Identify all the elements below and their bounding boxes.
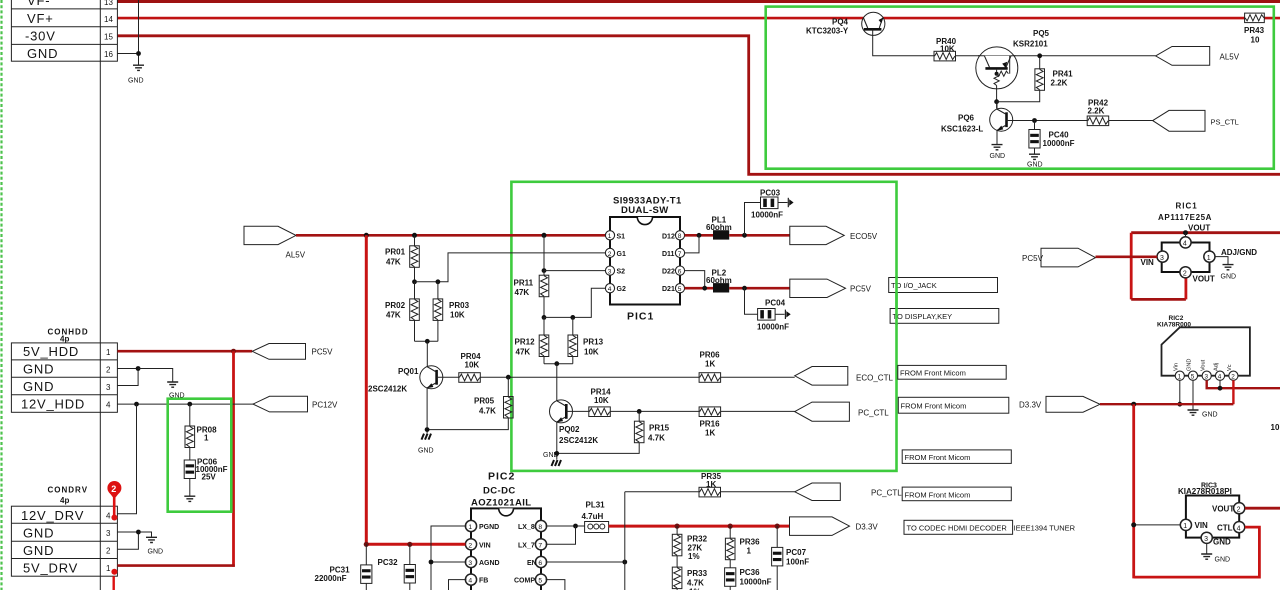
svg-text:VF+: VF+ <box>27 11 54 26</box>
svg-text:2: 2 <box>1231 374 1235 381</box>
svg-text:GND: GND <box>23 361 54 376</box>
svg-text:PR16: PR16 <box>700 420 721 429</box>
ground GND (pin16) <box>133 65 144 70</box>
pin 3 Vout <box>1202 371 1211 380</box>
svg-text:3: 3 <box>1160 255 1164 262</box>
svg-text:PR32: PR32 <box>687 535 708 544</box>
ground GND (CONDRV) <box>146 537 157 542</box>
svg-text:TO CODEC HDMI DECODER: TO CODEC HDMI DECODER <box>907 524 1008 533</box>
svg-text:60ohm: 60ohm <box>706 276 732 285</box>
svg-text:PC5V: PC5V <box>312 348 334 357</box>
svg-text:TO DISPLAY,KEY: TO DISPLAY,KEY <box>893 312 953 321</box>
wire: red stub below CONDRV <box>112 576 114 590</box>
tag AL5V (middle left) <box>244 226 296 244</box>
svg-text:2: 2 <box>468 542 472 549</box>
svg-text:2SC2412K: 2SC2412K <box>368 385 407 394</box>
wire: PQ6 emitter to ground <box>996 130 998 144</box>
svg-text:3: 3 <box>106 383 111 392</box>
pin 5 D21 <box>675 284 684 293</box>
wire: pin5 to PL2 (dark red) <box>685 287 713 290</box>
svg-text:D3.3V: D3.3V <box>1019 401 1042 410</box>
svg-text:GND: GND <box>148 549 164 556</box>
svg-text:PC5V: PC5V <box>1022 254 1044 263</box>
svg-text:8: 8 <box>678 233 682 240</box>
svg-text:7: 7 <box>538 542 542 549</box>
RIC1 body <box>1162 243 1210 273</box>
svg-text:PQ01: PQ01 <box>398 367 419 376</box>
svg-text:15: 15 <box>104 33 113 42</box>
svg-text:3: 3 <box>1204 536 1208 543</box>
node junction S1/down-feed <box>364 233 369 238</box>
svg-text:3: 3 <box>106 529 111 538</box>
svg-text:GND: GND <box>1215 557 1231 564</box>
svg-text:1: 1 <box>1207 255 1211 262</box>
svg-text:TO I/O_JACK: TO I/O_JACK <box>891 281 937 290</box>
wire: RIC3 VOUT out (dark red) <box>1245 507 1280 510</box>
svg-text:G1: G1 <box>617 251 626 258</box>
wire: CONDRV GND pins 3,2 <box>117 532 138 549</box>
svg-text:D22: D22 <box>662 269 675 276</box>
svg-text:1K: 1K <box>705 360 715 369</box>
pin 1 PGND <box>465 520 476 531</box>
svg-text:4.7K: 4.7K <box>687 579 704 588</box>
pin 7 LX_7 <box>535 539 546 550</box>
resistor PR13 10K <box>572 317 574 335</box>
svg-text:4.7uH: 4.7uH <box>582 512 604 521</box>
wire: PQ02 base to PR14 <box>566 410 589 412</box>
tag PC5V (right) <box>1041 248 1096 267</box>
node junction PC03 <box>742 233 747 238</box>
wire: AL5V to PIC1 pin S1 (dark red) <box>296 234 606 237</box>
svg-text:PIC2: PIC2 <box>488 471 515 483</box>
wire: PR01 bottom junction to G1 <box>414 267 416 282</box>
svg-text:1: 1 <box>468 524 472 531</box>
capacitor PC40 10000nF <box>1034 121 1036 130</box>
wire: vertical from top to GND junction <box>138 0 140 65</box>
wire: D3.3V riser down (bright red) <box>1132 404 1135 578</box>
svg-text:IEEE1394 TUNER: IEEE1394 TUNER <box>1014 524 1076 533</box>
svg-text:PC5V: PC5V <box>850 285 872 294</box>
svg-text:ECO_CTL: ECO_CTL <box>856 374 893 383</box>
svg-text:PC07: PC07 <box>786 548 807 557</box>
wire: PR06 to ECO_CTL tag <box>721 376 795 378</box>
svg-text:12V_DRV: 12V_DRV <box>21 508 84 523</box>
box TO DISPLAY,KEY <box>890 309 999 324</box>
pin 4 top <box>1180 237 1191 248</box>
node junction PC40/base <box>1032 118 1037 123</box>
resistor PR16 1K <box>699 407 721 417</box>
svg-text:PC32: PC32 <box>378 558 399 567</box>
wire: ECO_CTL line <box>480 376 699 378</box>
svg-text:Vin: Vin <box>1174 363 1180 371</box>
svg-text:DUAL-SW: DUAL-SW <box>621 205 669 216</box>
svg-text:6: 6 <box>538 560 542 567</box>
svg-text:2.2K: 2.2K <box>1088 107 1105 116</box>
resistor PR14 10K <box>589 407 611 417</box>
wire: PR15 bottom to PQ02 emitter <box>557 443 639 454</box>
wire: COMP down <box>546 580 565 590</box>
svg-text:GND: GND <box>1027 162 1043 169</box>
connector table top (pins 13-16) <box>11 0 117 61</box>
box FROM Front Micom 3 <box>902 450 1011 464</box>
svg-text:1: 1 <box>1178 374 1182 381</box>
ground (PQ01 hatched) <box>422 434 432 440</box>
wire: 5V vertical riser (bright red) <box>232 351 235 567</box>
svg-text:10K: 10K <box>465 361 480 370</box>
wire: junction right and up to PR41 <box>997 90 1040 101</box>
wire: PC06 to ground <box>189 479 191 496</box>
tag ECO_CTL <box>795 367 848 386</box>
wire: FB down <box>449 580 467 590</box>
wire: D3.3V rail (dark red) <box>1100 403 1233 405</box>
wire: Vout net (dark red) <box>1207 380 1280 388</box>
pin 2 VIN <box>465 539 476 550</box>
resistor PR33 4.7K <box>676 556 678 567</box>
transistor PQ4 <box>806 12 885 35</box>
node junction VOUT <box>1183 230 1188 235</box>
node junction pin16 <box>136 51 141 56</box>
pin 4 Adj <box>1215 371 1224 380</box>
tag ECO5V <box>790 226 844 244</box>
svg-text:1: 1 <box>1183 523 1187 530</box>
svg-text:PGND: PGND <box>479 524 499 531</box>
svg-text:5: 5 <box>678 286 682 293</box>
svg-text:KTC3203-Y: KTC3203-Y <box>806 27 849 36</box>
resistor PR03 10K <box>437 282 439 299</box>
svg-text:PR11: PR11 <box>514 279 534 288</box>
svg-text:AP1117E25A: AP1117E25A <box>1158 213 1212 222</box>
tag PS_CTL <box>1153 110 1205 131</box>
svg-text:GND: GND <box>1202 412 1218 419</box>
wire: PR35 to PC_CTL tag <box>721 491 795 493</box>
svg-text:14: 14 <box>104 15 113 24</box>
svg-text:RIC1: RIC1 <box>1176 202 1198 211</box>
svg-text:FB: FB <box>479 578 488 585</box>
svg-text:GND: GND <box>1187 359 1193 371</box>
svg-text:PR33: PR33 <box>687 569 708 578</box>
wire: PL2 to PC5V tag (dark red) <box>729 287 790 290</box>
resistor PR42 2.2K <box>1087 116 1109 126</box>
RIC3 body <box>1186 496 1239 538</box>
svg-text:PS_CTL: PS_CTL <box>1211 118 1239 127</box>
svg-text:VF-: VF- <box>27 0 50 8</box>
svg-text:4: 4 <box>468 578 472 585</box>
pin 6 EN <box>535 556 546 567</box>
resistor PR35 1K <box>699 487 721 497</box>
wire: VF+ net row14 horizontal (red) <box>118 17 1280 20</box>
wire: PGND/AGND tie <box>431 526 466 590</box>
wire: PC40 to ground <box>1034 148 1036 154</box>
svg-text:22000nF: 22000nF <box>315 574 347 583</box>
svg-text:10000nF: 10000nF <box>757 323 789 332</box>
pin 3 VIN <box>1157 251 1168 262</box>
capacitor PC32 <box>409 544 411 564</box>
node junction PR01 top <box>412 233 417 238</box>
tag D3.3V (bottom) <box>790 517 850 536</box>
svg-text:D11: D11 <box>662 251 675 258</box>
svg-text:2.2K: 2.2K <box>1051 79 1068 88</box>
wire: 12V_HDD pin4 to PC12V tag <box>117 403 253 405</box>
svg-text:5V_DRV: 5V_DRV <box>23 561 78 576</box>
svg-text:10000nF: 10000nF <box>740 578 772 587</box>
capacitor PC06 10000nF 25V <box>189 448 191 461</box>
svg-text:GND: GND <box>418 448 434 455</box>
wire: Vc down (bright red) <box>1232 380 1234 404</box>
svg-text:LX_8: LX_8 <box>518 524 535 531</box>
pin 8 D12 <box>675 231 684 240</box>
svg-text:PR03: PR03 <box>449 301 470 310</box>
wire: PR05 bottom to PQ01 emitter/ground <box>427 418 508 430</box>
box FROM Front Micom 2 <box>898 397 1009 413</box>
resistor PR40 10K <box>934 51 956 61</box>
svg-text:4: 4 <box>106 400 111 409</box>
svg-text:10K: 10K <box>450 311 465 320</box>
resistor PR43 10 (top right corner) <box>1244 13 1265 44</box>
capacitor PC04 10000nF <box>745 288 758 314</box>
wire: LX_8 to PL31, LX_7 tie <box>546 525 585 527</box>
pin 3 GND <box>1201 532 1212 543</box>
wire: 5V_DRV pin1 (dark red) <box>117 564 234 567</box>
svg-text:4.7K: 4.7K <box>479 407 496 416</box>
capacitor PC31 22000nF <box>365 544 367 565</box>
resistor PR04 10K <box>459 373 481 383</box>
svg-text:VIN: VIN <box>1195 521 1209 530</box>
svg-text:1: 1 <box>747 547 752 556</box>
wire: vertical feed to DC-DC (bright red) <box>365 235 368 545</box>
svg-text:VOUT: VOUT <box>1188 224 1210 233</box>
resistor PR12 47K <box>543 317 545 335</box>
svg-text:VOUT: VOUT <box>1193 275 1215 284</box>
capacitor PC36 10000nF <box>729 560 731 568</box>
svg-text:5V_HDD: 5V_HDD <box>23 344 79 359</box>
svg-text:FROM Front Micom: FROM Front Micom <box>901 402 967 411</box>
svg-text:EN: EN <box>527 560 537 567</box>
pin 2 G1 <box>605 248 614 257</box>
wire: EN line and PR35 riser <box>546 561 625 563</box>
wire: PQ01 emitter down <box>426 388 428 433</box>
wire: PQ6 base right to PR42 <box>1007 120 1088 122</box>
svg-text:5: 5 <box>538 578 542 585</box>
wire: VOUT 2.5V rail (dark red) <box>1131 231 1280 234</box>
svg-text:3: 3 <box>608 269 612 276</box>
wire: VF- net top horizontal (dark red) <box>110 0 1280 3</box>
svg-text:VIN: VIN <box>1141 258 1155 267</box>
wire: PR40 to PQ5 and across to AL5V tag <box>956 55 1156 57</box>
svg-text:10000nF: 10000nF <box>751 211 783 220</box>
ground GND (PQ6) <box>992 145 1003 150</box>
svg-text:4: 4 <box>1237 525 1241 532</box>
svg-text:FROM Front Micom: FROM Front Micom <box>900 369 966 378</box>
svg-text:1: 1 <box>608 233 612 240</box>
pin 1 Vin <box>1175 371 1184 380</box>
svg-text:GND: GND <box>128 78 144 85</box>
green block box small (PR08/PC06) <box>168 399 232 512</box>
svg-text:4: 4 <box>106 512 111 521</box>
svg-text:60ohm: 60ohm <box>706 223 732 232</box>
resistor PR15 4.7K <box>638 411 640 421</box>
svg-text:ECO5V: ECO5V <box>850 232 878 241</box>
resistor PR06 1K <box>699 373 721 383</box>
svg-text:D3.3V: D3.3V <box>856 523 879 532</box>
svg-text:47K: 47K <box>515 288 530 297</box>
svg-text:4: 4 <box>1183 241 1187 248</box>
pin 8 LX_8 <box>535 520 546 531</box>
svg-text:47K: 47K <box>386 311 401 320</box>
tag PC12V <box>253 396 308 412</box>
svg-text:1: 1 <box>106 348 111 357</box>
svg-text:100nF: 100nF <box>786 558 809 567</box>
wire: PQ5 emitter down to junction <box>996 89 998 109</box>
svg-text:8: 8 <box>538 524 542 531</box>
svg-text:2: 2 <box>111 484 116 494</box>
svg-text:3: 3 <box>1205 374 1209 381</box>
svg-text:PQ02: PQ02 <box>559 425 580 434</box>
wire: PC_CTL line <box>610 410 699 412</box>
resistor PR01 47K <box>414 235 416 246</box>
svg-text:1K: 1K <box>705 429 715 438</box>
svg-text:PC12V: PC12V <box>312 401 338 410</box>
wire: PR12/PR13 bottoms to PQ02 collector <box>543 357 545 364</box>
node junction pin7 riser <box>697 233 702 238</box>
svg-text:47K: 47K <box>516 348 531 357</box>
IC PIC2 DC-DC AOZ1021AIL <box>471 471 541 590</box>
wire: PR41 top to AL5V net <box>1039 56 1041 69</box>
wire: CONHDD GND pins 2,3 <box>117 369 138 386</box>
wire: pin7 jog up <box>685 235 699 253</box>
svg-text:PC03: PC03 <box>760 189 781 198</box>
svg-text:PL31: PL31 <box>586 501 606 510</box>
node junction 5V riser <box>231 349 236 354</box>
ground GND (RIC1) <box>1223 265 1234 270</box>
RIC2 body <box>1162 327 1250 375</box>
svg-text:PR36: PR36 <box>740 538 761 547</box>
svg-text:2SC2412K: 2SC2412K <box>559 436 598 445</box>
svg-text:GND: GND <box>1221 274 1237 281</box>
svg-text:FROM Front Micom: FROM Front Micom <box>905 490 971 499</box>
ground (PQ02 hatched) <box>552 460 562 466</box>
inductor PL31 4.7uH <box>582 501 609 533</box>
svg-text:ADJ/GND: ADJ/GND <box>1221 248 1257 257</box>
resistor PR41 2.2K <box>1035 69 1045 91</box>
IC PIC1 SI9933ADY-T1 body <box>610 196 682 323</box>
node junction below PQ5 <box>994 99 999 104</box>
pin 1 VIN <box>1180 519 1191 530</box>
svg-text:2: 2 <box>608 251 612 258</box>
tag PC5V (middle output) <box>790 279 846 297</box>
wire: RIC3 GND stem <box>1206 544 1208 554</box>
svg-text:4p: 4p <box>60 335 69 344</box>
svg-text:CTL: CTL <box>1217 524 1233 533</box>
svg-text:CONDRV: CONDRV <box>48 486 89 495</box>
svg-text:2: 2 <box>106 547 111 556</box>
svg-text:PR02: PR02 <box>385 301 406 310</box>
tag PC_CTL <box>795 402 850 421</box>
wire: PQ02 emitter down <box>556 422 558 460</box>
box TO I/O_JACK <box>889 278 998 293</box>
svg-text:KSR2101: KSR2101 <box>1013 40 1048 49</box>
connector CONHDD 4p <box>11 328 117 413</box>
wire: ADJ to ground <box>1215 257 1228 265</box>
wire: PQ01 base to PR04 <box>437 376 459 378</box>
svg-text:PQ6: PQ6 <box>958 114 975 123</box>
ground GND (PC06) <box>184 496 195 501</box>
wire: PC5V to VIN (dark red) <box>1096 255 1158 258</box>
page border (green dashed left edge) <box>0 0 2 590</box>
ground GND (RIC2) <box>1188 410 1199 415</box>
svg-text:PC_CTL: PC_CTL <box>858 409 889 418</box>
svg-text:2: 2 <box>106 365 111 374</box>
svg-text:1: 1 <box>106 564 111 573</box>
transistor PQ5 KSR2101 <box>976 29 1050 89</box>
wire: Adj stem <box>1219 380 1221 388</box>
wire: pin16 to ground <box>117 53 138 55</box>
svg-text:PC36: PC36 <box>740 568 761 577</box>
svg-text:4p: 4p <box>60 496 69 505</box>
pin 4 G2 <box>605 284 614 293</box>
node junction PR11 top <box>542 233 547 238</box>
svg-text:PIC1: PIC1 <box>627 311 654 323</box>
node junction PR41/AL5V <box>1037 53 1042 58</box>
svg-text:PR12: PR12 <box>515 338 536 347</box>
green block box middle <box>511 182 896 471</box>
svg-text:FROM Front Micom: FROM Front Micom <box>905 453 971 462</box>
pin 5 COMP <box>535 574 546 585</box>
svg-text:PQ4: PQ4 <box>832 18 849 27</box>
green edge overlay over boxes <box>895 276 898 325</box>
svg-text:1K: 1K <box>706 480 716 489</box>
svg-text:GND: GND <box>990 153 1006 160</box>
pin 4 CTL <box>1234 522 1245 533</box>
ground GND (CONHDD) <box>167 382 178 387</box>
svg-text:S2: S2 <box>617 269 626 276</box>
wire: RIC3 VIN to riser <box>1134 524 1181 526</box>
ground GND (RIC3) <box>1201 554 1212 559</box>
svg-text:PR05: PR05 <box>474 397 495 406</box>
box TO CODEC HDMI DECODER <box>904 520 1013 534</box>
svg-text:KSC1623-L: KSC1623-L <box>941 125 983 134</box>
wire: GND stem <box>1192 380 1194 409</box>
svg-text:47K: 47K <box>386 258 401 267</box>
wire: VIN red feed <box>366 543 465 546</box>
svg-text:GND: GND <box>1213 538 1231 547</box>
svg-text:10: 10 <box>1271 423 1280 432</box>
pin 3 AGND <box>465 556 476 567</box>
svg-text:25V: 25V <box>202 473 217 482</box>
svg-text:10: 10 <box>1251 36 1260 45</box>
svg-text:Vc: Vc <box>1227 364 1233 371</box>
pin 5 GND <box>1188 371 1197 380</box>
resistor PR32 27K 1% <box>676 526 678 534</box>
svg-text:AGND: AGND <box>479 560 500 567</box>
tag D3.3V (right) <box>1046 396 1100 412</box>
svg-text:4: 4 <box>608 286 612 293</box>
svg-text:-30V: -30V <box>25 29 56 44</box>
svg-text:AL5V: AL5V <box>286 251 306 260</box>
svg-text:1%: 1% <box>688 552 700 561</box>
wire: PQ6 collector up to junction <box>996 102 998 110</box>
box FROM Front Micom 4 <box>902 487 1011 501</box>
pin 2 Vc <box>1229 371 1238 380</box>
svg-text:GND: GND <box>23 526 54 541</box>
svg-text:AL5V: AL5V <box>1220 53 1240 62</box>
wire: Vin stem <box>1179 380 1181 404</box>
wire: PR42 to PS_CTL tag <box>1109 120 1153 122</box>
svg-text:G2: G2 <box>617 286 626 293</box>
svg-text:10K: 10K <box>940 45 955 54</box>
wire: 12V riser down to CONDRV pin4 <box>117 404 136 514</box>
wire: PQ4 base down and right to PR40 <box>873 29 934 56</box>
svg-text:3: 3 <box>468 560 472 567</box>
